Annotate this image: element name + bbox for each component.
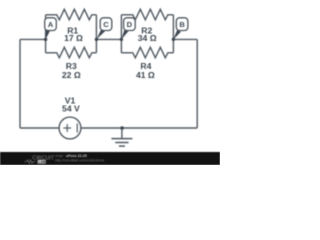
node B tail [173,30,181,39]
watermark logo waveform [25,160,36,164]
junction dot D [120,38,123,41]
svg-text:54 V: 54 V [62,104,80,114]
V1 plus sign [63,124,71,132]
wire: left block left edge [45,15,47,53]
svg-text:17 Ω: 17 Ω [64,33,83,43]
resistor R3 zigzag [46,47,97,58]
wire: left horizontal from rail to node A [20,38,46,40]
wire: left rail vertical [19,39,21,128]
wire: right horizontal from rail to node B [173,38,197,40]
svg-text:B: B [179,20,185,29]
ground bar 2 [115,142,128,144]
junction dot B [172,38,175,41]
svg-text:34 Ω: 34 Ω [138,33,157,43]
svg-text:http://circuitlab.com/c/u5c3cm: http://circuitlab.com/c/u5c3cme [55,158,104,162]
junction dot A [44,38,47,41]
wire: bottom right from V1 to right rail [81,127,197,129]
junction dot ground tap [120,126,124,130]
node A box [45,18,57,31]
wire: right block left edge [120,15,122,53]
node C box [100,18,112,31]
wire: right rail vertical [196,39,198,128]
wire: bottom left to V1 [20,127,59,129]
wire: left block right edge [95,15,97,53]
watermark logo LAB [38,160,46,164]
node D tail [121,30,128,40]
resistor R4 zigzag [121,47,173,58]
svg-text:C: C [103,20,109,29]
svg-text:41 Ω: 41 Ω [136,70,155,80]
V1 minus bar [76,123,78,132]
svg-text:22 Ω: 22 Ω [62,70,81,80]
node C tail [96,30,105,40]
ground stem [121,128,123,139]
svg-text:LAB: LAB [38,160,46,164]
junction dot C [95,38,98,41]
svg-text:D: D [127,20,133,29]
node D box [124,18,136,31]
node B box [176,18,188,31]
wire: middle segment node C to node D [96,38,121,40]
svg-text:A: A [48,20,54,29]
watermark bar [0,152,220,165]
resistor R2 zigzag [121,9,173,19]
resistor R1 zigzag [46,9,97,19]
wire: right block right edge [172,15,174,53]
ground bar 1 [111,138,132,140]
voltage source V1 circle [59,117,81,139]
node A tail [46,30,51,40]
ground bar 3 [119,145,125,147]
